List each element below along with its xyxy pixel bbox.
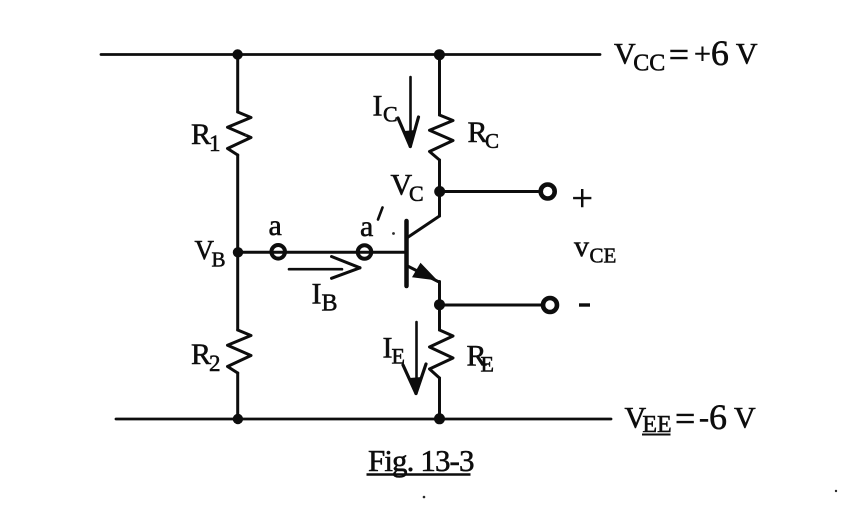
svg-text:-6 V: -6 V (699, 397, 756, 437)
svg-text:I: I (373, 90, 383, 123)
svg-text:a: a (269, 209, 282, 242)
svg-text:B: B (322, 291, 338, 317)
svg-text:CC: CC (633, 51, 665, 77)
svg-text:R: R (191, 338, 211, 371)
svg-text:C: C (409, 181, 424, 206)
svg-text:+6 V: +6 V (694, 33, 758, 73)
svg-text:2: 2 (209, 351, 221, 376)
svg-text:=: = (669, 34, 689, 74)
svg-text:+: + (572, 178, 593, 220)
svg-text:CE: CE (590, 244, 617, 268)
svg-text:1: 1 (209, 131, 221, 156)
svg-text:E: E (481, 352, 494, 377)
svg-text:Fig. 13-3: Fig. 13-3 (368, 443, 474, 478)
svg-text:I: I (312, 278, 322, 311)
svg-text:v: v (574, 230, 589, 263)
svg-text:C: C (485, 129, 499, 153)
svg-text:R: R (191, 118, 211, 151)
svg-text:C: C (383, 102, 398, 127)
svg-text:=: = (675, 398, 695, 438)
svg-text:E: E (392, 344, 405, 369)
svg-text:B: B (212, 248, 226, 272)
svg-text:a: a (360, 210, 373, 243)
